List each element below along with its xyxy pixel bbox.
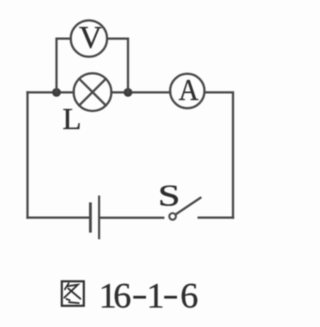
switch S [169, 198, 200, 220]
node: junction dot left [52, 88, 61, 97]
node: junction dot right [124, 88, 133, 97]
wire: battery to switch segment [101, 217, 164, 219]
svg-text:V: V [79, 19, 102, 55]
svg-text:S: S [158, 178, 180, 212]
ammeter A [170, 74, 204, 108]
wire: lamp to ammeter segment [111, 91, 170, 93]
wire: ammeter to top-right corner and right vertical [205, 92, 233, 217]
svg-text:6: 6 [180, 276, 198, 316]
svg-text:1: 1 [147, 276, 165, 316]
caption text 16-1-6 [99, 276, 199, 316]
svg-text:A: A [179, 74, 199, 108]
caption glyph 图 (drawn) [62, 281, 84, 306]
wire: voltmeter branch right riser [107, 39, 128, 93]
caption: 图 16-1-6 [62, 276, 199, 316]
voltmeter V [71, 20, 107, 56]
wire: bottom right segment (switch to corner) [199, 216, 233, 218]
wire: bottom left segment (corner to battery) [28, 216, 89, 218]
battery B1 [90, 197, 99, 239]
wire: top row, left corner to lamp [28, 91, 74, 93]
svg-text:L: L [63, 101, 82, 136]
wire: voltmeter branch left riser [57, 39, 71, 93]
svg-text:6: 6 [113, 276, 131, 316]
lamp L [74, 73, 112, 111]
wire: left vertical of main loop [26, 92, 28, 217]
